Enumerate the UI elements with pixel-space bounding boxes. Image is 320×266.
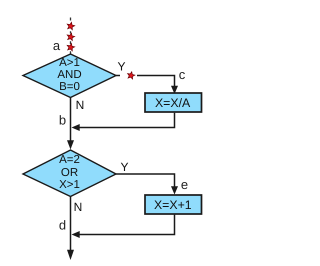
arrowhead into main line (left, lower) (72, 231, 80, 238)
svg-text:A=2: A=2 (59, 154, 80, 166)
star marker on yes branch (127, 71, 136, 79)
svg-text:Y: Y (117, 59, 125, 73)
decision diamond D1: A>1 AND B=0 (23, 54, 116, 98)
wire: yes branch horizontal to corner (137, 76, 175, 88)
wire: P1 bottom down then left (80, 113, 175, 128)
wire: D2 yes branch to corner (116, 174, 175, 188)
decision diamond D2: A=2 OR X>1 (23, 150, 116, 197)
wire: dashed entry line into first diamond (70, 18, 72, 54)
wire: main vertical line D1 bottom to D2 (70, 98, 72, 142)
svg-text:X=X+1: X=X+1 (154, 198, 192, 212)
star marker 2 on entry line (66, 32, 75, 41)
svg-text:b: b (59, 112, 66, 127)
svg-text:A>1: A>1 (59, 57, 80, 69)
svg-text:Y: Y (120, 160, 128, 174)
wire: main vertical line D2 bottom to exit (70, 197, 72, 251)
star marker 1 on entry line (66, 21, 75, 30)
arrowhead into X=X/A (171, 86, 178, 94)
process box P1: X=X/A (145, 93, 202, 112)
process box P2: X=X+1 (145, 195, 202, 214)
wire: P2 bottom down then left (80, 215, 175, 235)
svg-text:X=X/A: X=X/A (155, 96, 191, 110)
svg-text:d: d (59, 218, 66, 233)
arrowhead into D2 top (67, 140, 74, 149)
star marker 3 on entry line (66, 43, 75, 52)
svg-text:a: a (53, 38, 61, 53)
svg-text:N: N (76, 98, 85, 112)
arrowhead into X=X+1 (171, 186, 178, 194)
wire: D1 right tip stub (116, 75, 120, 77)
svg-text:e: e (181, 177, 188, 192)
svg-text:N: N (74, 200, 83, 214)
exit arrowhead (67, 250, 74, 260)
svg-text:B=0: B=0 (59, 81, 80, 93)
svg-text:c: c (179, 67, 186, 82)
svg-text:X>1: X>1 (59, 179, 80, 191)
svg-text:OR: OR (61, 167, 78, 179)
svg-text:AND: AND (57, 69, 81, 81)
arrowhead into main line (left) (72, 124, 80, 131)
